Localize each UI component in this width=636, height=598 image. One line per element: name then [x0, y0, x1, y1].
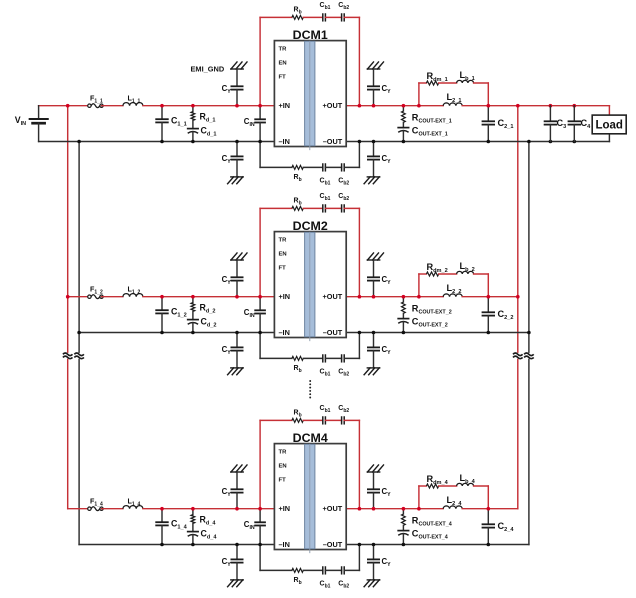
- svg-text:EN: EN: [279, 60, 287, 66]
- svg-text:TR: TR: [279, 237, 288, 243]
- svg-text:EN: EN: [279, 463, 287, 469]
- svg-text:+OUT: +OUT: [323, 504, 343, 513]
- svg-text:+IN: +IN: [279, 292, 291, 301]
- svg-text:–OUT: –OUT: [323, 540, 343, 549]
- svg-text:TR: TR: [279, 46, 288, 52]
- svg-text:+IN: +IN: [279, 101, 291, 110]
- svg-text:+OUT: +OUT: [323, 292, 343, 301]
- svg-text:FT: FT: [279, 266, 287, 272]
- svg-text:FT: FT: [279, 75, 287, 81]
- svg-text:+IN: +IN: [279, 504, 291, 513]
- svg-text:–IN: –IN: [279, 137, 290, 146]
- svg-text:EMI_GND: EMI_GND: [191, 64, 225, 73]
- svg-text:TR: TR: [279, 449, 288, 455]
- svg-text:FT: FT: [279, 478, 287, 484]
- svg-text:–OUT: –OUT: [323, 137, 343, 146]
- svg-text:Load: Load: [595, 120, 622, 132]
- svg-text:–OUT: –OUT: [323, 328, 343, 337]
- svg-text:DCM4: DCM4: [293, 431, 328, 445]
- svg-text:–IN: –IN: [279, 540, 290, 549]
- svg-text:DCM1: DCM1: [293, 28, 328, 42]
- svg-text:EN: EN: [279, 251, 287, 257]
- svg-text:+OUT: +OUT: [323, 101, 343, 110]
- svg-text:–IN: –IN: [279, 328, 290, 337]
- svg-text:DCM2: DCM2: [293, 219, 328, 233]
